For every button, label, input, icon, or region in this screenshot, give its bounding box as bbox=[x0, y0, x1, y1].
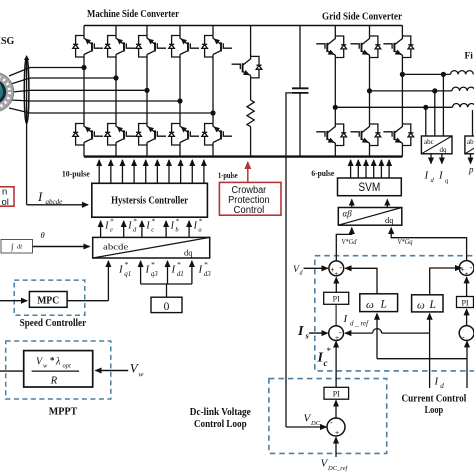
svg-text:d: d bbox=[440, 382, 444, 390]
svg-text:d _ ref: d _ ref bbox=[350, 320, 369, 328]
svg-text:abcde: abcde bbox=[103, 242, 129, 252]
svg-text:-: - bbox=[339, 263, 342, 272]
svg-text:DC: DC bbox=[310, 420, 321, 427]
svg-text:+: + bbox=[335, 335, 339, 342]
svg-text:Speed Controller: Speed Controller bbox=[20, 318, 87, 329]
svg-text:ω: ω bbox=[366, 299, 374, 311]
svg-text:-: - bbox=[462, 333, 465, 342]
svg-text:MSG: MSG bbox=[0, 36, 15, 47]
svg-text:L: L bbox=[380, 299, 387, 311]
svg-text:*: * bbox=[133, 217, 137, 225]
svg-text:p: p bbox=[468, 165, 474, 175]
svg-text:10-pulse: 10-pulse bbox=[62, 169, 90, 179]
svg-text:I: I bbox=[193, 221, 198, 232]
svg-text:αβ: αβ bbox=[343, 209, 353, 219]
svg-text:-: - bbox=[330, 418, 333, 427]
svg-text:ol: ol bbox=[2, 197, 9, 208]
svg-text:-: - bbox=[470, 263, 473, 272]
svg-text:n: n bbox=[2, 186, 7, 197]
svg-text:I: I bbox=[170, 221, 175, 232]
svg-text:c: c bbox=[151, 227, 154, 234]
svg-text:*: * bbox=[125, 260, 129, 269]
svg-text:s: s bbox=[305, 331, 310, 341]
svg-text:PI: PI bbox=[461, 298, 468, 307]
svg-text:Control Loop: Control Loop bbox=[194, 418, 247, 430]
svg-text:Machine Side Converter: Machine Side Converter bbox=[87, 8, 179, 20]
svg-text:Loop: Loop bbox=[425, 404, 444, 416]
svg-text:PI: PI bbox=[333, 390, 340, 399]
svg-text:a: a bbox=[198, 227, 201, 234]
svg-text:Fi: Fi bbox=[465, 52, 474, 62]
svg-text:1-pulse: 1-pulse bbox=[218, 170, 238, 180]
svg-text:q3: q3 bbox=[151, 270, 159, 278]
svg-text:Current Control: Current Control bbox=[402, 393, 467, 405]
svg-text:I: I bbox=[37, 189, 43, 204]
svg-text:θ: θ bbox=[41, 230, 45, 240]
svg-text:*: * bbox=[199, 217, 203, 225]
svg-text:d1: d1 bbox=[177, 270, 184, 278]
svg-text:opt: opt bbox=[63, 363, 72, 370]
svg-text:abcde: abcde bbox=[46, 198, 63, 206]
svg-text:d3: d3 bbox=[204, 270, 212, 278]
svg-text:dq: dq bbox=[184, 248, 193, 258]
svg-text:R: R bbox=[50, 376, 58, 387]
svg-text:I: I bbox=[297, 324, 304, 339]
svg-text:abc: abc bbox=[424, 138, 434, 146]
svg-text:*: * bbox=[50, 356, 55, 366]
svg-text:w: w bbox=[43, 363, 48, 370]
svg-text:MPC: MPC bbox=[37, 296, 59, 307]
svg-text:dt: dt bbox=[17, 244, 22, 251]
svg-text:ω: ω bbox=[417, 300, 425, 312]
svg-text:e: e bbox=[110, 227, 113, 234]
svg-text:w: w bbox=[139, 370, 144, 379]
svg-text:I: I bbox=[317, 351, 324, 366]
svg-text:c: c bbox=[324, 358, 328, 368]
svg-text:V*Gq: V*Gq bbox=[398, 238, 413, 246]
svg-text:dq: dq bbox=[440, 146, 448, 154]
svg-text:I: I bbox=[145, 221, 150, 232]
svg-text:+: + bbox=[335, 430, 339, 437]
svg-text:I: I bbox=[127, 221, 132, 232]
svg-text:q1: q1 bbox=[124, 270, 131, 278]
svg-text:*: * bbox=[151, 260, 155, 269]
svg-text:6-pulse: 6-pulse bbox=[311, 168, 334, 178]
svg-text:I: I bbox=[104, 221, 109, 232]
svg-text:*: * bbox=[204, 260, 208, 269]
svg-text:L: L bbox=[429, 299, 436, 311]
svg-text:+: + bbox=[334, 272, 338, 278]
svg-text:0: 0 bbox=[164, 301, 170, 313]
svg-text:SVM: SVM bbox=[358, 182, 380, 194]
svg-text:Control: Control bbox=[234, 205, 265, 216]
svg-text:PI: PI bbox=[333, 295, 340, 304]
svg-text:*: * bbox=[152, 217, 156, 225]
svg-text:Dc-link Voltage: Dc-link Voltage bbox=[190, 406, 251, 418]
svg-text:V*Gd: V*Gd bbox=[342, 238, 357, 246]
svg-text:*: * bbox=[176, 217, 180, 225]
svg-text:*: * bbox=[177, 260, 181, 269]
svg-text:DC_ref: DC_ref bbox=[327, 465, 348, 472]
svg-text:ab: ab bbox=[467, 138, 474, 146]
svg-text:*: * bbox=[327, 346, 332, 356]
svg-text:λ: λ bbox=[55, 357, 61, 368]
svg-text:*: * bbox=[110, 217, 114, 225]
svg-text:Grid Side Converter: Grid Side Converter bbox=[322, 11, 402, 23]
svg-text:+: + bbox=[465, 272, 469, 278]
svg-text:MPPT: MPPT bbox=[49, 406, 78, 418]
svg-text:Hystersis Controller: Hystersis Controller bbox=[111, 196, 188, 207]
svg-text:-: - bbox=[339, 328, 342, 337]
svg-text:dq: dq bbox=[385, 215, 394, 225]
